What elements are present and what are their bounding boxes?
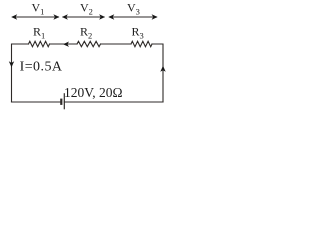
svg-text:V1: V1 (32, 1, 45, 17)
svg-text:I=0.5A: I=0.5A (20, 60, 63, 75)
svg-text:120V, 20Ω: 120V, 20Ω (64, 85, 123, 100)
svg-text:R2: R2 (80, 25, 92, 41)
svg-text:V3: V3 (127, 1, 140, 17)
svg-text:R3: R3 (132, 25, 144, 41)
svg-text:R1: R1 (33, 25, 45, 41)
svg-text:V2: V2 (80, 1, 93, 17)
